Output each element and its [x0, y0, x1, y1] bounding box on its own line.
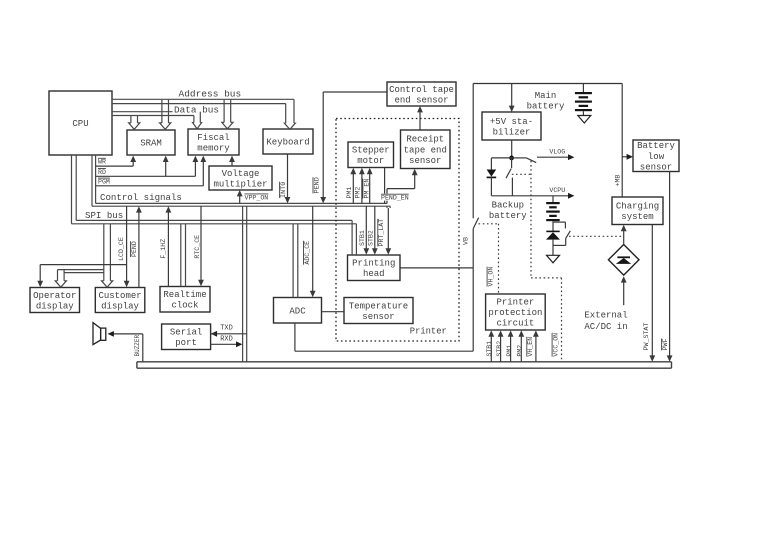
svg-text:Main: Main: [535, 91, 557, 101]
svg-text:Serial: Serial: [170, 328, 202, 338]
svg-text:CPU: CPU: [72, 119, 88, 129]
svg-text:Charging: Charging: [616, 202, 659, 212]
svg-text:RTC_CE: RTC_CE: [194, 235, 201, 259]
svg-text:F_1HZ: F_1HZ: [160, 239, 167, 259]
svg-text:SRAM: SRAM: [140, 139, 162, 149]
svg-text:end sensor: end sensor: [394, 95, 448, 105]
svg-text:LCD_CE: LCD_CE: [118, 237, 125, 261]
svg-text:RD: RD: [98, 169, 106, 176]
svg-text:PM1: PM1: [346, 187, 353, 199]
svg-text:External: External: [584, 310, 627, 320]
svg-text:protection: protection: [488, 308, 542, 318]
svg-text:sensor: sensor: [640, 162, 672, 172]
svg-text:Fiscal: Fiscal: [197, 133, 229, 143]
svg-text:PW_STAT: PW_STAT: [643, 323, 650, 351]
svg-text:Address bus: Address bus: [179, 88, 242, 99]
svg-text:SPI bus: SPI bus: [85, 210, 123, 221]
svg-text:BUZZER: BUZZER: [134, 334, 141, 356]
svg-text:Backup: Backup: [492, 200, 524, 210]
svg-text:PM1: PM1: [506, 345, 513, 357]
svg-text:VB: VB: [463, 237, 470, 245]
svg-text:Printing: Printing: [352, 259, 395, 269]
svg-text:memory: memory: [197, 143, 230, 153]
svg-text:Operator: Operator: [33, 291, 76, 301]
svg-text:circuit: circuit: [496, 319, 534, 329]
svg-text:VH_ON: VH_ON: [488, 267, 495, 287]
svg-text:INT0: INT0: [280, 182, 288, 198]
svg-text:Keyboard: Keyboard: [266, 138, 309, 148]
svg-text:Control signals: Control signals: [100, 192, 182, 203]
svg-text:battery: battery: [489, 211, 527, 221]
svg-text:bilizer: bilizer: [493, 127, 531, 137]
svg-text:VCPU: VCPU: [549, 187, 565, 194]
svg-text:TXD: TXD: [220, 325, 233, 333]
svg-text:PM2: PM2: [517, 345, 524, 357]
svg-text:Temperature: Temperature: [349, 301, 408, 311]
svg-text:system: system: [621, 212, 653, 222]
svg-text:sensor: sensor: [362, 312, 394, 322]
svg-text:Stepper: Stepper: [352, 146, 390, 156]
svg-text:Customer: Customer: [98, 291, 141, 301]
svg-text:AC/DC in: AC/DC in: [584, 322, 627, 332]
svg-text:Printer: Printer: [496, 298, 534, 308]
svg-text:multiplier: multiplier: [213, 179, 267, 189]
svg-text:WR: WR: [98, 159, 106, 166]
svg-text:+MB: +MB: [614, 175, 621, 187]
svg-text:+5V sta-: +5V sta-: [490, 117, 533, 127]
svg-text:PM2: PM2: [355, 187, 362, 199]
svg-text:Control tape: Control tape: [389, 85, 454, 95]
svg-text:PWF: PWF: [662, 338, 669, 350]
svg-text:STB1: STB1: [359, 230, 366, 246]
svg-text:PEND_EN: PEND_EN: [381, 195, 409, 202]
svg-text:STB2: STB2: [496, 341, 503, 357]
svg-text:Voltage: Voltage: [222, 169, 260, 179]
svg-text:sensor: sensor: [409, 156, 441, 166]
svg-text:ADC_CE: ADC_CE: [304, 241, 311, 265]
svg-text:STB2: STB2: [368, 230, 375, 246]
svg-text:PM_EN: PM_EN: [363, 179, 370, 199]
svg-text:head: head: [363, 269, 385, 279]
svg-text:ADC: ADC: [289, 306, 306, 316]
svg-text:display: display: [36, 301, 74, 311]
svg-text:VH_EN: VH_EN: [527, 337, 534, 357]
svg-text:PGM: PGM: [98, 179, 110, 186]
svg-text:PEND: PEND: [314, 177, 322, 193]
svg-text:RXD: RXD: [220, 335, 233, 343]
svg-text:Realtime: Realtime: [163, 290, 206, 300]
svg-text:VCC_ON: VCC_ON: [553, 333, 560, 357]
svg-text:tape end: tape end: [404, 145, 447, 155]
svg-text:VPP_ON: VPP_ON: [245, 194, 269, 201]
svg-text:display: display: [101, 301, 139, 311]
svg-text:VLOG: VLOG: [549, 148, 565, 155]
svg-text:motor: motor: [357, 156, 384, 166]
svg-text:low: low: [648, 152, 665, 162]
svg-text:clock: clock: [171, 301, 198, 311]
svg-text:Data bus: Data bus: [174, 105, 219, 116]
svg-text:Battery: Battery: [637, 141, 675, 151]
svg-text:Printer: Printer: [410, 327, 447, 337]
svg-text:port: port: [175, 338, 197, 348]
svg-text:PRT_LAT: PRT_LAT: [378, 219, 385, 247]
svg-text:battery: battery: [527, 101, 565, 111]
svg-text:Receipt: Receipt: [406, 135, 444, 145]
svg-text:PEND: PEND: [131, 241, 138, 257]
svg-text:STB1: STB1: [486, 341, 493, 357]
